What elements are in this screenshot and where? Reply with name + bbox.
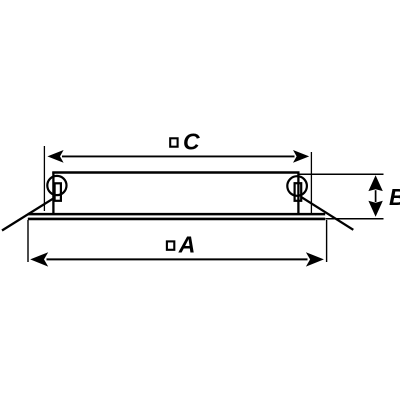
svg-text:B: B: [389, 184, 400, 210]
dimension line A: [47, 258, 308, 260]
clip circle left: [47, 176, 66, 195]
svg-text:C: C: [183, 128, 200, 154]
body right wall: [297, 172, 299, 215]
arrowhead C left: [47, 150, 63, 163]
dimension line C: [62, 155, 295, 157]
extension line B top: [299, 173, 384, 175]
extension line C left: [43, 146, 45, 211]
arrowhead A left: [30, 252, 48, 266]
extension line A right: [326, 220, 328, 262]
extension line C right: [310, 152, 312, 213]
dimension line B: [375, 190, 377, 202]
arrowhead B up: [368, 175, 382, 191]
clip housing right: [295, 183, 302, 201]
extension line A left: [27, 220, 29, 262]
flange top line: [28, 213, 325, 216]
svg-text:A: A: [178, 231, 196, 257]
arrowhead C right: [293, 150, 309, 163]
flange bottom line: [28, 218, 325, 221]
spring arm left: [2, 198, 54, 230]
clip housing left: [55, 183, 61, 201]
spring arm right: [298, 195, 354, 230]
arrowhead A right: [306, 252, 324, 266]
extension line B bottom: [326, 218, 384, 220]
body top line: [52, 171, 299, 173]
arrowhead B down: [368, 201, 382, 217]
square symbol of label A: [167, 241, 174, 249]
clip circle right: [287, 176, 307, 196]
body left wall: [52, 172, 54, 215]
square symbol of label C: [170, 138, 177, 146]
